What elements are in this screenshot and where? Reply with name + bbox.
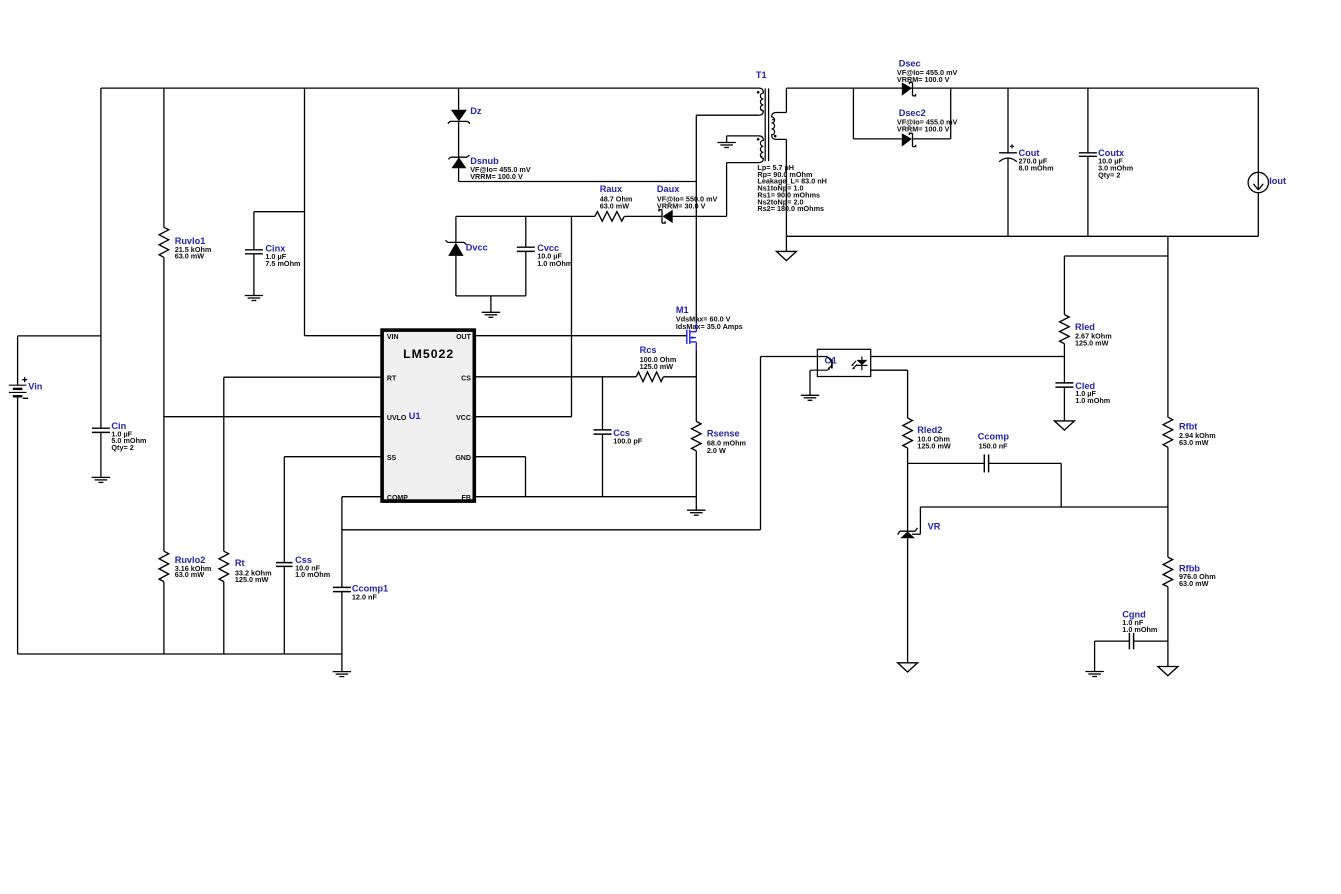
- capacitor Cvcc: [517, 216, 535, 296]
- pin GND: [455, 455, 471, 462]
- label Dvcc: [466, 243, 488, 253]
- value Cout: [1019, 156, 1054, 172]
- label Cgnd: [1122, 610, 1145, 620]
- ground VR: [898, 663, 918, 672]
- label Iout: [1269, 176, 1286, 186]
- ground Cgnd: [1085, 672, 1103, 677]
- pin OUT: [456, 334, 472, 341]
- wire CS rail: [476, 376, 636, 378]
- wire opto emitter ground: [809, 370, 811, 395]
- svg-text:VCC: VCC: [456, 415, 471, 422]
- svg-text:125.0 mW: 125.0 mW: [917, 442, 951, 451]
- svg-text:8.0 mOhm: 8.0 mOhm: [1019, 163, 1054, 172]
- ground Rfbb: [1158, 667, 1178, 676]
- label Raux: [600, 184, 623, 194]
- wire Rled bottom node: [1063, 344, 1065, 357]
- label Coutx: [1098, 148, 1125, 158]
- label Ccs: [613, 428, 630, 438]
- battery Vin: [9, 377, 28, 398]
- capacitor Cin: [92, 428, 110, 432]
- wire Cinx to ground: [253, 254, 255, 296]
- label LM5022: [403, 347, 454, 361]
- svg-text:Raux: Raux: [600, 184, 623, 194]
- capacitor Cinx: [245, 250, 263, 254]
- svg-text:63.0 mW: 63.0 mW: [600, 202, 630, 211]
- ground aux winding: [717, 143, 735, 148]
- svg-text:125.0 mW: 125.0 mW: [235, 575, 269, 584]
- wire mid feedback rail: [920, 506, 1168, 508]
- svg-text:Qty= 2: Qty= 2: [1098, 171, 1120, 180]
- ground vcc: [482, 312, 500, 317]
- svg-text:T1: T1: [756, 70, 767, 80]
- capacitor Cgnd: [1129, 633, 1133, 650]
- pin RT: [387, 375, 397, 382]
- svg-text:VR: VR: [928, 521, 941, 531]
- resistor Rled: [1060, 315, 1070, 344]
- resistor Rled2: [903, 418, 913, 448]
- wire SS: [284, 457, 380, 563]
- value Rled2: [917, 434, 951, 450]
- wire top rail left: [101, 87, 759, 89]
- optocoupler O1 body: [817, 349, 870, 376]
- wire opto anode: [871, 356, 1065, 358]
- svg-text:12.0 nF: 12.0 nF: [352, 593, 378, 602]
- svg-text:Iout: Iout: [1269, 176, 1286, 186]
- value Dsnub: [470, 165, 531, 181]
- capacitor Coutx: [1079, 153, 1097, 157]
- resistor Rfbt: [1163, 417, 1173, 447]
- wire Rfbb bottom: [1167, 587, 1169, 667]
- wire top rail right: [786, 87, 1258, 89]
- value Daux: [657, 194, 718, 210]
- svg-text:UVLO: UVLO: [387, 415, 407, 422]
- wire feedback column top: [1167, 236, 1169, 417]
- svg-text:LM5022: LM5022: [403, 347, 454, 361]
- diode O1 LED: [851, 357, 867, 371]
- value Rled: [1075, 331, 1112, 347]
- ground FB: [687, 510, 705, 515]
- wire output bottom rail: [786, 235, 1258, 237]
- label Rfbb: [1179, 563, 1200, 573]
- label Cinx: [265, 243, 286, 253]
- wire FB ground stem: [695, 497, 697, 511]
- label Cled: [1075, 381, 1095, 391]
- label Dsec2: [899, 108, 926, 118]
- wire Rled jog: [1064, 256, 1168, 315]
- label Rled2: [917, 425, 942, 435]
- wire UVLO tap: [164, 416, 381, 418]
- svg-text:GND: GND: [455, 455, 471, 462]
- wire Coutx top: [1087, 88, 1089, 153]
- value Cled: [1075, 389, 1110, 405]
- ground opto: [801, 395, 819, 400]
- label Cout: [1019, 148, 1040, 158]
- wire Iout bottom: [1257, 193, 1259, 237]
- pin FB: [462, 495, 471, 502]
- wire VR ref jog: [912, 507, 920, 534]
- label Vin: [28, 382, 43, 392]
- wire Daux to aux winding: [673, 163, 727, 217]
- svg-text:Rs2= 180.0 mOhms: Rs2= 180.0 mOhms: [757, 204, 824, 213]
- wire Cin to ground: [100, 432, 102, 477]
- wire Ccomp right: [989, 463, 1062, 507]
- resistor Rfbb: [1163, 557, 1173, 587]
- value Rt: [235, 569, 272, 584]
- wire Dsec2 branch right: [913, 88, 951, 139]
- value Cvcc: [537, 252, 572, 268]
- wire vcc bottom rail: [456, 296, 526, 312]
- diode Dsec: [902, 82, 916, 95]
- wire Dsec2 branch left: [853, 88, 901, 139]
- wire FB rail: [476, 496, 696, 498]
- wire Vin plus lead: [18, 336, 101, 385]
- svg-text:VRRM= 30.0 V: VRRM= 30.0 V: [657, 202, 706, 211]
- svg-text:Vin: Vin: [28, 382, 43, 392]
- wire Rled2 bottom: [907, 448, 909, 463]
- pin CS: [461, 375, 471, 382]
- value Cin: [111, 429, 146, 452]
- wire Cled bottom: [1063, 387, 1065, 421]
- svg-text:1.0 mOhm: 1.0 mOhm: [537, 259, 572, 268]
- wire Cgnd right: [1134, 640, 1168, 642]
- op-amp U1 LM5022 body: [382, 330, 474, 501]
- diode Dz: [448, 110, 470, 124]
- transistor M1: [687, 323, 697, 350]
- value Ccomp: [979, 441, 1009, 450]
- svg-text:FB: FB: [462, 495, 471, 502]
- wire Raux to Daux: [624, 215, 662, 217]
- svg-text:COMP: COMP: [387, 495, 408, 502]
- label Dsnub: [470, 156, 499, 166]
- label Daux: [657, 184, 680, 194]
- label Cin: [111, 421, 126, 431]
- svg-text:Ccomp: Ccomp: [978, 431, 1010, 441]
- wire Ccomp1 bottom: [341, 592, 343, 672]
- value Cinx: [265, 252, 300, 268]
- svg-text:1.0 mOhm: 1.0 mOhm: [295, 570, 330, 579]
- wire Vin minus lead: [17, 396, 19, 654]
- ground Cin: [92, 477, 110, 482]
- svg-text:CS: CS: [461, 375, 471, 382]
- svg-text:1.0 mOhm: 1.0 mOhm: [1075, 396, 1110, 405]
- svg-text:Rt: Rt: [235, 558, 245, 568]
- value Ruvlo1: [175, 245, 212, 261]
- resistor Raux: [595, 212, 624, 222]
- svg-text:7.5 mOhm: 7.5 mOhm: [265, 259, 300, 268]
- svg-text:Dvcc: Dvcc: [466, 243, 488, 253]
- value Rcs: [640, 355, 677, 371]
- value Ccs: [613, 437, 643, 446]
- resistor Ruvlo2: [159, 551, 169, 581]
- diode Daux: [659, 210, 673, 223]
- label Rfbt: [1179, 422, 1197, 432]
- svg-text:125.0 mW: 125.0 mW: [1075, 338, 1109, 347]
- pin UVLO: [387, 415, 407, 422]
- value Raux: [600, 194, 633, 210]
- resistor Rt: [219, 551, 229, 581]
- value M1: [676, 315, 743, 331]
- wire Ruvlo2 bottom: [163, 582, 165, 654]
- label Rled: [1075, 322, 1095, 332]
- capacitor Cled: [1055, 383, 1073, 387]
- wire Ccs bottom: [602, 434, 604, 497]
- wire Css bottom: [283, 566, 285, 654]
- wire Ccomp left: [908, 462, 985, 464]
- wire OUT to gate: [476, 335, 687, 337]
- wire Cgnd left: [1095, 641, 1130, 671]
- resistor Rsense: [692, 377, 702, 497]
- current source Iout: [1248, 172, 1268, 192]
- capacitor Ccomp: [984, 454, 988, 472]
- pin VCC: [456, 415, 471, 422]
- svg-text:VRRM= 100.0 V: VRRM= 100.0 V: [897, 124, 950, 133]
- label Rt: [235, 558, 245, 568]
- wire Coutx bottom: [1087, 156, 1089, 236]
- svg-text:M1: M1: [676, 305, 689, 315]
- value Rfbt: [1179, 431, 1216, 447]
- wire GND pin jog: [476, 457, 525, 497]
- value Dsec2: [897, 117, 958, 133]
- wire Dz top: [458, 88, 460, 110]
- wire secondary bottom: [785, 139, 787, 236]
- label Ccomp1: [352, 584, 388, 594]
- wire Rfbt bottom: [1167, 447, 1169, 557]
- wire Cled top: [1063, 357, 1065, 383]
- wire Cout top: [1007, 88, 1009, 153]
- label Dz: [470, 106, 482, 116]
- wire Rt bottom: [223, 582, 225, 654]
- label U1: [409, 411, 421, 421]
- capacitor Ccs: [594, 430, 612, 434]
- wire bottom rail: [18, 653, 342, 655]
- label Ruvlo2: [175, 555, 206, 565]
- label Rsense: [707, 429, 740, 439]
- value Ruvlo2: [175, 564, 212, 579]
- wire opto cathode: [871, 370, 908, 418]
- wire secondary ground stem: [785, 236, 787, 251]
- wire vcc rail: [456, 215, 595, 217]
- svg-text:VRRM= 100.0 V: VRRM= 100.0 V: [897, 75, 950, 84]
- wire primary bottom / drain: [696, 115, 759, 322]
- capacitor Ccomp1: [333, 587, 351, 591]
- diode Dsec2: [902, 133, 916, 146]
- value Dsec: [897, 68, 958, 84]
- label VR: [928, 521, 941, 531]
- transformer T1 primary winding: [757, 88, 764, 115]
- value Cgnd: [1122, 618, 1157, 634]
- ground Ccomp1: [333, 672, 351, 677]
- label Ccomp: [978, 431, 1010, 441]
- value Rsense: [707, 439, 746, 455]
- wire Cinx tap: [254, 212, 305, 250]
- svg-text:Qty= 2: Qty= 2: [111, 443, 133, 452]
- value Ccomp1: [352, 593, 378, 602]
- label Rcs: [640, 345, 657, 355]
- wire source to CS: [695, 350, 697, 377]
- svg-text:IdsMax= 35.0 Amps: IdsMax= 35.0 Amps: [676, 322, 743, 331]
- wire Dsnub to drain: [459, 157, 697, 181]
- transistor O1 detector: [810, 357, 832, 371]
- wire input node vertical: [100, 88, 102, 428]
- wire Cout bottom: [1007, 158, 1009, 237]
- wire Ruvlo1 top: [163, 88, 165, 227]
- label M1: [676, 305, 689, 315]
- ground secondary: [776, 251, 796, 260]
- diode Dsnub: [448, 155, 469, 168]
- svg-text:Dsec2: Dsec2: [899, 108, 926, 118]
- transformer T1 core: [765, 88, 768, 161]
- svg-text:OUT: OUT: [456, 334, 472, 341]
- wire VR bottom: [907, 538, 909, 663]
- label Dsec: [899, 58, 921, 68]
- wire secondary top: [785, 88, 787, 112]
- diode VR: [898, 528, 918, 538]
- wire VIN feed: [305, 88, 381, 336]
- svg-text:RT: RT: [387, 375, 397, 382]
- svg-text:100.0 pF: 100.0 pF: [613, 437, 643, 446]
- svg-text:Rcs: Rcs: [640, 345, 657, 355]
- ground Cled: [1054, 421, 1074, 430]
- svg-text:VRRM= 100.0 V: VRRM= 100.0 V: [470, 172, 523, 181]
- wire COMP: [342, 497, 381, 588]
- wire Rcs to Rsense node: [663, 376, 696, 378]
- wire VR top: [907, 463, 909, 531]
- svg-text:63.0 mW: 63.0 mW: [175, 251, 205, 260]
- svg-text:VIN: VIN: [387, 334, 399, 341]
- label O1: [825, 355, 837, 365]
- pin SS: [387, 455, 397, 462]
- label Css: [295, 555, 312, 565]
- ground Cinx: [245, 296, 263, 301]
- svg-text:1.0 mOhm: 1.0 mOhm: [1122, 625, 1157, 634]
- wire COMP to opto link: [342, 357, 818, 530]
- value Rfbb: [1179, 572, 1216, 588]
- wire aux winding to ground: [726, 136, 728, 143]
- transformer T1 secondary winding: [772, 113, 787, 140]
- wire Dz to Dsnub: [458, 121, 460, 157]
- resistor Rcs: [636, 372, 663, 382]
- capacitor Css: [276, 563, 293, 567]
- svg-text:2.0 W: 2.0 W: [707, 446, 726, 455]
- value Css: [295, 563, 330, 579]
- value Coutx: [1098, 156, 1133, 179]
- wire VCC pin feed: [476, 216, 571, 416]
- svg-text:150.0 nF: 150.0 nF: [979, 441, 1009, 450]
- svg-text:SS: SS: [387, 455, 397, 462]
- svg-text:Dz: Dz: [470, 106, 482, 116]
- svg-text:63.0 mW: 63.0 mW: [1179, 579, 1209, 588]
- wire Iout top: [1257, 88, 1259, 172]
- pin COMP: [387, 495, 408, 502]
- svg-text:Daux: Daux: [657, 184, 680, 194]
- label Cvcc: [537, 243, 559, 253]
- svg-text:63.0 mW: 63.0 mW: [1179, 438, 1209, 447]
- capacitor Cout: [999, 144, 1017, 162]
- resistor Ruvlo1: [159, 227, 169, 257]
- wire Ccs top: [602, 377, 604, 430]
- label T1: [756, 70, 767, 80]
- svg-text:U1: U1: [409, 411, 421, 421]
- diode Dvcc: [446, 216, 467, 296]
- pin VIN: [387, 334, 399, 341]
- label Ruvlo1: [175, 236, 206, 246]
- svg-text:125.0 mW: 125.0 mW: [640, 362, 674, 371]
- value T1: [757, 163, 827, 213]
- svg-text:63.0 mW: 63.0 mW: [175, 570, 205, 579]
- wire RT: [224, 377, 381, 551]
- transformer T1 aux winding: [727, 136, 764, 163]
- svg-text:Rsense: Rsense: [707, 429, 740, 439]
- wire Ruvlo1 to Ruvlo2: [163, 257, 165, 551]
